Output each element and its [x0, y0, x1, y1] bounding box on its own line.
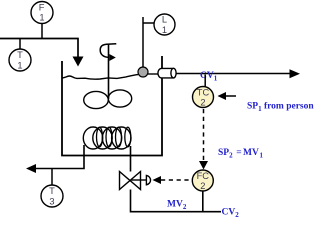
heating coil	[83, 127, 131, 149]
svg-text:SP1 from person: SP1 from person	[247, 102, 314, 114]
svg-text:L: L	[162, 15, 167, 25]
stirrer rotation arrow	[100, 44, 116, 61]
svg-text:T: T	[49, 186, 55, 196]
pipe: valve supply	[131, 190, 222, 212]
wire: T1 connector	[19, 39, 21, 50]
svg-text:2: 2	[200, 181, 205, 191]
svg-text:1: 1	[162, 25, 167, 35]
wire: L1 connector	[143, 17, 155, 67]
pipe: feed header	[0, 39, 78, 57]
svg-text:1: 1	[17, 60, 22, 70]
svg-text:TC: TC	[197, 87, 210, 97]
outlet nozzle (cylinder)	[158, 68, 176, 78]
pipe: coil inlet riser	[130, 146, 132, 172]
controller TC2	[193, 87, 214, 108]
coil outlet arrowhead	[26, 164, 36, 173]
feed arrowhead	[73, 57, 84, 67]
controller FC2	[192, 170, 213, 191]
instrument L1	[154, 14, 175, 35]
signal: FC2 to valve (dashed)	[153, 176, 192, 184]
svg-text:SP2=MV1: SP2=MV1	[218, 148, 264, 160]
tank	[62, 56, 162, 156]
pipe: gray node to nozzle	[148, 73, 159, 75]
signal: SP1 into TC2	[218, 92, 237, 100]
stirrer blade left	[84, 91, 109, 108]
instrument T1	[9, 49, 31, 71]
product arrowhead	[290, 69, 301, 78]
arrowhead into FC2	[199, 161, 208, 170]
wire: F1 connector	[41, 24, 43, 39]
svg-text:T: T	[17, 50, 23, 60]
wire: FC2 output	[202, 191, 204, 212]
wire: T3 connector	[51, 169, 53, 186]
valve stem	[131, 179, 147, 181]
svg-text:F: F	[39, 2, 45, 12]
stirrer blade right	[108, 90, 131, 107]
wire: TC2 connector	[204, 75, 206, 87]
svg-text:3: 3	[49, 196, 54, 206]
svg-text:2: 2	[200, 97, 205, 107]
valve actuator	[146, 175, 150, 184]
valve V1 (bowtie)	[120, 172, 141, 190]
instrument F1	[31, 2, 53, 24]
sensor node (gray circle)	[138, 67, 148, 77]
svg-text:FC: FC	[197, 171, 210, 181]
signal: TC2 to FC2 (dashed)	[203, 109, 205, 161]
liquid surface	[62, 75, 138, 80]
pipe: coil outlet	[36, 145, 84, 169]
stirrer shaft	[108, 45, 110, 100]
svg-text:1: 1	[39, 13, 44, 23]
instrument T3	[41, 185, 63, 207]
pipe: product outlet	[177, 73, 291, 75]
